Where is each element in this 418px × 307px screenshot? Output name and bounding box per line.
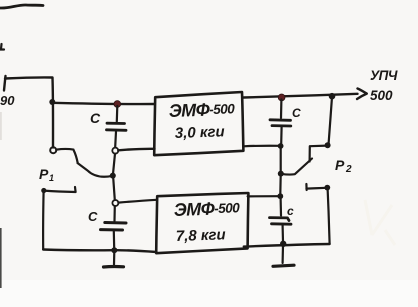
svg-text:1: 1	[49, 173, 54, 183]
capacitor C1 plates	[107, 123, 127, 130]
capacitor C2 lower lead	[113, 231, 116, 249]
wire bottom left ground bus	[43, 250, 156, 253]
junction dot P2 upper contact	[325, 142, 331, 148]
svg-text:c: c	[287, 204, 294, 218]
wire P2 lower contact down	[328, 189, 330, 244]
left edge smudge	[0, 112, 2, 140]
svg-text:90: 90	[0, 93, 15, 108]
faint ghost marks	[365, 200, 395, 245]
left edge artifact	[0, 228, 2, 288]
svg-text:P: P	[39, 166, 49, 182]
ground right bar	[273, 265, 294, 266]
contact stub P2 upper	[310, 146, 327, 162]
capacitor C1 lower lead	[114, 132, 117, 148]
wire vertical input branch	[51, 78, 54, 148]
node open circle N2	[112, 200, 118, 206]
wire U1 lower output	[244, 145, 279, 148]
svg-text:УПЧ: УПЧ	[370, 68, 398, 83]
node open circle N1	[112, 148, 118, 154]
wire input to corner	[5, 77, 53, 78]
junction dot bottom-right bus	[280, 241, 286, 247]
node red junction dot right	[278, 94, 285, 101]
wire top-left partial line	[0, 5, 43, 8]
junction dot P1 pole	[110, 173, 116, 179]
svg-text:C: C	[292, 106, 301, 120]
capacitor C4 bottom-right top lead	[280, 198, 283, 216]
wire vertical from output junction	[329, 97, 332, 144]
output arrowhead	[357, 89, 367, 100]
capacitor C1 top-left lead	[116, 106, 119, 122]
svg-text:500: 500	[370, 88, 393, 103]
node stray mark left edge	[0, 44, 4, 50]
capacitor C2 bottom-left top lead	[113, 206, 116, 221]
svg-text:C: C	[90, 110, 101, 126]
contact stub P1 upper	[56, 149, 77, 163]
capacitor C2 plates	[101, 223, 127, 231]
capacitor C4 lower lead	[282, 226, 285, 243]
capacitor C3 plates	[270, 120, 291, 126]
junction dot input branch	[49, 99, 55, 105]
wire left down branch	[42, 191, 45, 249]
svg-text:P: P	[335, 157, 345, 173]
capacitor C3 lower lead	[280, 127, 283, 144]
contact lower P1 stub	[44, 187, 76, 192]
junction dot P2 pole	[278, 171, 284, 177]
contact lower P2 stub	[306, 184, 326, 190]
filter U2 box	[156, 193, 248, 253]
node contact circle P1	[50, 147, 56, 153]
svg-text:3,0 кги: 3,0 кги	[175, 123, 225, 142]
svg-text:2: 2	[345, 164, 352, 175]
capacitor C3 top-right lead	[280, 100, 283, 119]
junction dot right branch top	[278, 143, 284, 149]
wire right vertical middle	[280, 147, 282, 172]
ground left lead	[113, 252, 116, 265]
wire P1 pole down to N2	[113, 178, 115, 201]
filter U1 box	[154, 92, 243, 155]
svg-text:C: C	[88, 209, 98, 224]
wire N2 to U2 input	[118, 200, 157, 203]
contact lower P1 dot	[41, 188, 46, 193]
wire U1 output	[244, 94, 358, 98]
node red junction dot left	[114, 101, 121, 108]
wire bottom right bus	[244, 244, 330, 247]
junction dot N3	[277, 193, 283, 199]
capacitor C4 plates	[270, 218, 292, 225]
switch arm P2	[281, 159, 312, 175]
wire N1 to U1 lower terminal	[118, 149, 154, 151]
junction dot P2 lower contact	[324, 185, 330, 191]
wire P2 pole to N3	[279, 175, 282, 195]
junction dot output branch	[329, 93, 336, 100]
wire U2 output right	[248, 195, 278, 197]
wire to filter U1 input	[53, 103, 155, 104]
node input terminal tick	[4, 76, 6, 91]
junction dot bottom-left bus	[111, 247, 117, 253]
wire N1 down to P1 pole	[113, 154, 115, 174]
switch arm P1	[78, 163, 113, 177]
svg-text:7,8 кги: 7,8 кги	[176, 226, 226, 245]
ground right lead	[282, 245, 285, 263]
ground left bar	[104, 265, 124, 269]
